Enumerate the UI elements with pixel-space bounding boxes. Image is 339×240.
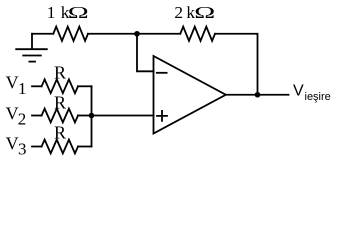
output node junction dot [255,92,261,98]
resistor R 2k zigzag [180,27,215,41]
svg-text:Ω: Ω [194,3,215,22]
output wire [226,94,289,96]
svg-text:V: V [6,134,19,154]
svg-text:3: 3 [18,140,27,159]
ground [16,34,47,62]
wire node A to R 2k [137,33,180,35]
svg-text:V: V [6,73,19,93]
wire R1k to node A [88,33,137,35]
wire node B to non-inverting input [92,115,154,117]
svg-text:V: V [293,83,304,100]
wire V2 resistor to bus [78,115,92,117]
svg-text:Ω: Ω [68,3,89,22]
op-amp plus sign [157,111,167,121]
svg-text:2: 2 [18,110,27,129]
svg-text:1: 1 [18,79,27,98]
svg-text:ieşire: ieşire [305,91,331,103]
node A junction dot [134,31,140,37]
svg-text:R: R [54,62,66,82]
resistor R (V3) zigzag [42,140,78,154]
svg-text:R: R [54,123,66,143]
wire ground to R 1k [32,33,53,35]
node B junction dot [89,113,95,119]
wire V2 to resistor [32,115,42,117]
svg-text:V: V [6,103,19,123]
resistor R (V2) zigzag [42,109,78,123]
resistor R (V1) zigzag [42,79,78,93]
wire V3 to resistor [32,146,42,148]
wire V1 to resistor [32,85,42,87]
wire node A down to inverting input [137,34,154,72]
svg-text:1: 1 [47,3,56,22]
op-amp U1 triangle [154,56,226,134]
wire R 2k to feedback corner down to output node [215,34,258,95]
svg-text:R: R [54,93,66,113]
svg-text:2: 2 [174,3,183,22]
bus wire vertical [91,86,93,146]
wire V1 resistor to bus [78,85,92,87]
resistor R 1k zigzag [53,27,88,41]
op-amp minus sign [157,72,167,74]
wire V3 resistor to bus [78,146,92,148]
